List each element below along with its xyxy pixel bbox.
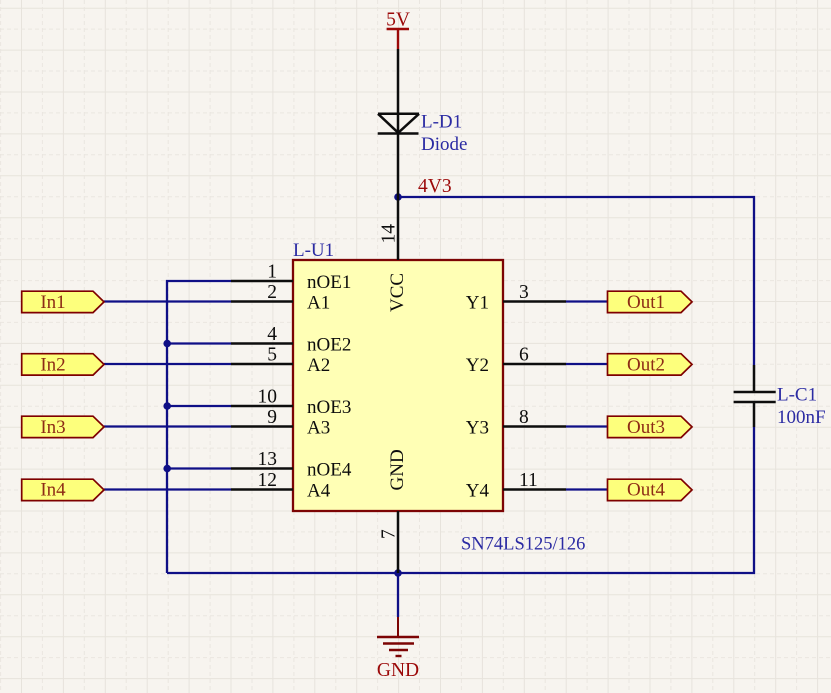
svg-text:5: 5 [267, 345, 277, 366]
svg-text:2: 2 [267, 282, 277, 303]
svg-text:Out3: Out3 [627, 417, 665, 438]
svg-text:14: 14 [379, 224, 400, 244]
svg-text:A2: A2 [307, 355, 330, 376]
svg-text:GND: GND [377, 660, 419, 681]
svg-text:5V: 5V [386, 10, 410, 31]
svg-text:4V3: 4V3 [418, 176, 452, 197]
svg-text:11: 11 [519, 470, 538, 491]
svg-text:9: 9 [267, 407, 277, 428]
svg-text:7: 7 [379, 529, 400, 539]
svg-text:A1: A1 [307, 293, 330, 314]
svg-text:L-U1: L-U1 [293, 240, 334, 261]
svg-text:Y3: Y3 [466, 418, 489, 439]
svg-text:1: 1 [267, 262, 277, 283]
svg-text:12: 12 [258, 470, 278, 491]
svg-text:Out1: Out1 [627, 292, 665, 313]
svg-text:L-C1: L-C1 [777, 385, 817, 406]
svg-text:Out2: Out2 [627, 355, 665, 376]
svg-text:A4: A4 [307, 481, 331, 502]
svg-text:A3: A3 [307, 418, 330, 439]
svg-text:GND: GND [387, 449, 408, 490]
svg-text:Diode: Diode [421, 134, 467, 155]
svg-text:4: 4 [267, 324, 277, 345]
svg-text:6: 6 [519, 345, 529, 366]
svg-text:nOE3: nOE3 [307, 397, 351, 418]
svg-text:L-D1: L-D1 [421, 112, 462, 133]
svg-text:3: 3 [519, 282, 529, 303]
svg-text:Y2: Y2 [466, 355, 489, 376]
svg-text:8: 8 [519, 407, 529, 428]
svg-text:SN74LS125/126: SN74LS125/126 [461, 535, 585, 555]
svg-text:nOE2: nOE2 [307, 335, 351, 356]
svg-text:In3: In3 [40, 417, 65, 438]
svg-text:Y4: Y4 [466, 481, 490, 502]
svg-text:100nF: 100nF [777, 407, 826, 428]
svg-text:10: 10 [258, 387, 278, 408]
svg-text:13: 13 [258, 449, 278, 470]
svg-text:Y1: Y1 [466, 293, 489, 314]
svg-text:nOE1: nOE1 [307, 272, 351, 293]
svg-text:VCC: VCC [387, 273, 408, 312]
svg-text:nOE4: nOE4 [307, 460, 352, 481]
svg-text:Out4: Out4 [627, 480, 666, 501]
svg-text:In2: In2 [40, 355, 65, 376]
svg-text:In1: In1 [40, 292, 65, 313]
svg-text:In4: In4 [40, 480, 66, 501]
